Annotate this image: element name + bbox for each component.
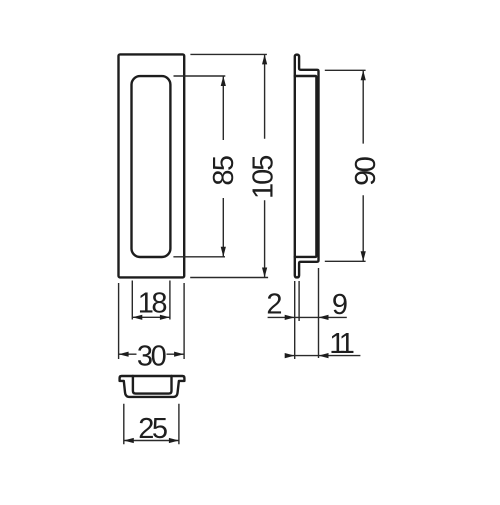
dim 11 dimension line	[287, 355, 361, 357]
svg-text:105: 105	[248, 156, 280, 199]
svg-text:18: 18	[138, 288, 167, 320]
dim 2-9-11 extension line tub back	[318, 268, 320, 358]
dim 11 right arrowhead (outside pointing left)	[319, 353, 329, 358]
dim 85 dimension line	[222, 76, 224, 257]
dim 85 arrowheads	[221, 76, 226, 257]
side view outer profile	[295, 55, 319, 278]
dim 85 extension line top	[174, 75, 226, 77]
dim 105 extension line top	[190, 53, 267, 55]
dim 30 dimension line	[119, 353, 185, 355]
dim 30 extension lines	[119, 283, 185, 359]
dim 105 dimension line	[264, 54, 266, 277]
dim 90 extension line top	[325, 69, 366, 71]
bottom view inner cup lines	[133, 376, 172, 394]
svg-text:11: 11	[329, 328, 353, 360]
dim 2-9-11 extension line flange back	[298, 281, 300, 321]
dim 18 extension lines	[132, 281, 170, 320]
dim 2 left arrowhead (outside pointing right)	[285, 315, 295, 320]
svg-text:85: 85	[208, 156, 240, 186]
svg-text:30: 30	[137, 340, 166, 372]
front view inner recess rounded rectangle	[132, 76, 171, 257]
dim 18 arrowheads	[132, 315, 170, 320]
front view outer plate rectangle	[119, 54, 185, 277]
svg-text:90: 90	[350, 157, 382, 186]
dim 2-9-11 extension line flange front	[294, 281, 296, 359]
dim 9 right arrowhead (outside pointing left)	[319, 315, 329, 320]
dim 105 extension line bottom	[190, 277, 268, 279]
dim 2 and 9 shared dimension line	[268, 316, 347, 318]
dim 85 extension line bottom	[173, 256, 225, 258]
dim 90 extension line bottom	[325, 260, 366, 262]
dim 90 arrowheads	[361, 70, 366, 261]
dim 25 arrowheads	[124, 438, 179, 443]
dim 25 dimension line	[124, 440, 179, 442]
svg-text:2: 2	[266, 288, 282, 320]
svg-text:25: 25	[138, 413, 167, 445]
dim 25 extension lines	[124, 404, 179, 445]
svg-text:9: 9	[332, 289, 348, 321]
bottom view outer profile (flange + tub)	[120, 376, 185, 397]
dim 105 arrowheads	[262, 54, 267, 277]
dim 11 left arrowhead (outside pointing right)	[285, 353, 295, 358]
dim 30 arrowheads	[119, 352, 185, 357]
dim 90 dimension line	[362, 70, 364, 261]
side view inner recess edge lines	[295, 76, 317, 257]
dim 18 dimension line	[132, 316, 170, 318]
